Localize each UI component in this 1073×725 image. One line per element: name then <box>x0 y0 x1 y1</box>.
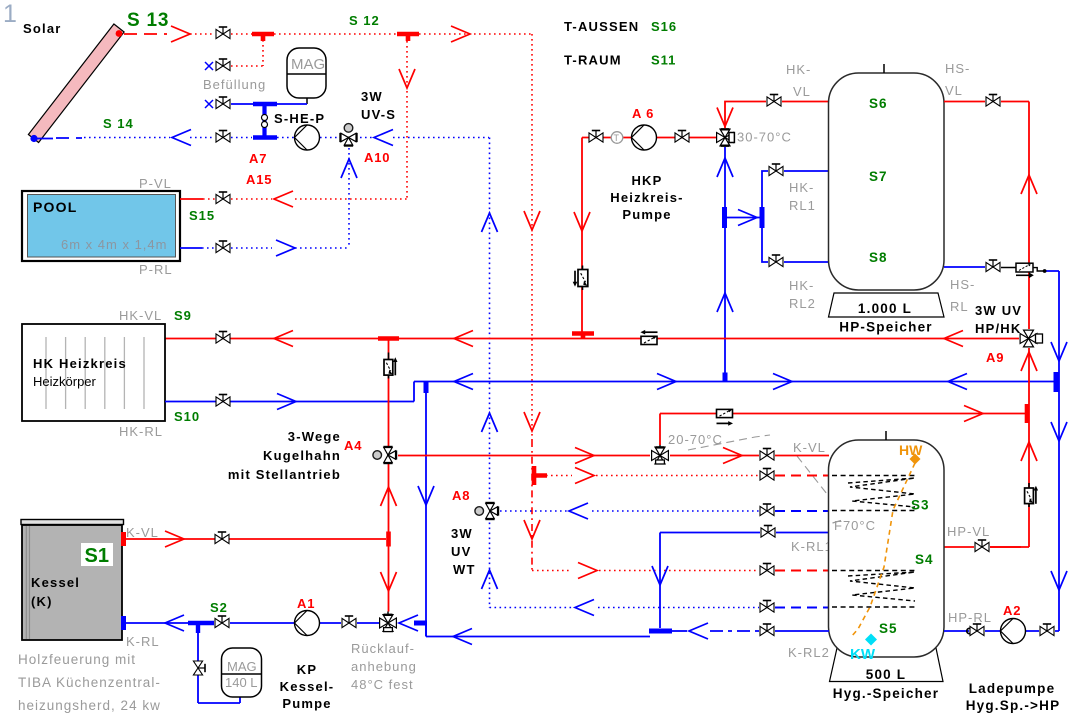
svg-text:A 6: A 6 <box>632 106 654 121</box>
svg-text:A10: A10 <box>364 150 390 165</box>
wire K-RL row (blue) <box>123 622 379 624</box>
arrow up x1029 mid <box>1021 352 1037 371</box>
hygiene tank base <box>830 648 944 682</box>
arrow left pool supply <box>274 191 293 207</box>
svg-text:HP-RL: HP-RL <box>948 610 992 625</box>
wire K-RL2 dash-dot (blue) <box>672 630 687 632</box>
arrow left main red b <box>454 331 473 347</box>
arrow down x660 <box>652 566 668 585</box>
svg-text:P-VL: P-VL <box>139 176 172 191</box>
expansion vessel MAG 140L <box>222 648 262 697</box>
svg-text:Hyg.-Speicher: Hyg.-Speicher <box>833 686 939 701</box>
svg-text:140 L: 140 L <box>225 675 258 690</box>
valve HK return <box>216 395 230 407</box>
arrow left row y513 <box>569 503 588 519</box>
node thick T main blue meets x1059 <box>1054 372 1059 392</box>
svg-text:heizungsherd, 24 kw: heizungsherd, 24 kw <box>18 698 161 713</box>
svg-text:(K): (K) <box>31 594 53 609</box>
arrow down x388 lower <box>381 572 397 591</box>
svg-text:S2: S2 <box>210 600 228 615</box>
solar collector <box>28 24 124 143</box>
3-way mixing valve 30-70C <box>717 129 735 146</box>
svg-text:K-RL1: K-RL1 <box>791 539 833 554</box>
svg-text:MAG: MAG <box>227 659 257 674</box>
wire befuellung (fill line) <box>231 40 263 66</box>
HP buffer tank 1000L <box>829 64 945 290</box>
arrow up x1029 low <box>1021 442 1037 461</box>
svg-text:KW: KW <box>850 646 876 663</box>
arrow up on x349 <box>341 159 357 178</box>
valve HP-RL right <box>1040 624 1054 636</box>
svg-text:A4: A4 <box>344 438 362 453</box>
svg-text:A2: A2 <box>1003 603 1021 618</box>
wire red upper row y413.5 <box>660 413 1026 415</box>
svg-text:RL2: RL2 <box>789 296 816 311</box>
svg-text:mit Stellantrieb: mit Stellantrieb <box>228 467 341 482</box>
svg-text:HW: HW <box>899 442 923 458</box>
svg-text:S4: S4 <box>915 552 934 567</box>
valve HK-RL2 <box>769 255 783 267</box>
wire solar return S14 (blue) <box>37 138 489 139</box>
svg-text:HK-: HK- <box>789 180 814 195</box>
arrow right row y570.5 <box>578 563 597 579</box>
wire HKP pump line (red) <box>582 138 716 334</box>
cap MAG line <box>205 100 213 108</box>
svg-text:3W: 3W <box>361 89 383 104</box>
arrow right on A4 row <box>575 448 594 464</box>
wire A4 to 20-70 mixer (red) <box>398 455 650 457</box>
valve row y513 <box>760 504 774 516</box>
arrow right HK return <box>277 394 296 410</box>
wire HS-RL (blue) <box>944 267 1059 631</box>
svg-text:S 12: S 12 <box>349 13 380 28</box>
valve HP-RL left <box>967 624 984 636</box>
node T junction solar down branch <box>397 32 419 41</box>
arrow right pool return <box>276 240 295 256</box>
wire solar station column <box>262 104 268 138</box>
leader dashed grey b <box>797 456 827 494</box>
wire red dotted vertical x532 (solar to lower zone) <box>531 34 533 440</box>
svg-text:S9: S9 <box>174 308 192 323</box>
svg-text:Heizkörper: Heizkörper <box>33 374 97 389</box>
svg-text:S6: S6 <box>869 96 888 111</box>
wire red vertical x660 <box>659 414 661 446</box>
valve row y570.5 <box>760 564 774 576</box>
valve pool return <box>216 241 230 253</box>
arrow up on x490 c <box>482 570 498 589</box>
svg-text:P-RL: P-RL <box>139 262 173 277</box>
svg-text:3W UV: 3W UV <box>975 303 1022 318</box>
svg-text:anhebung: anhebung <box>351 659 417 674</box>
valve befuellung <box>216 59 230 71</box>
pump S-HE-P <box>295 125 320 150</box>
wire HK-RL1 (blue) <box>762 171 829 218</box>
arrow up x725 b <box>717 293 733 312</box>
wire red dotted vertical x407 to pool supply <box>406 41 408 199</box>
svg-text:S 13: S 13 <box>127 10 169 31</box>
wire pool supply P-VL (red) <box>180 198 407 200</box>
flow meter on x388 <box>384 353 398 379</box>
node thick step x660 <box>649 629 672 634</box>
valve HS-VL <box>986 95 1000 107</box>
wire blue dotted row y513 <box>500 510 759 512</box>
arrow down x1059 c <box>1051 571 1067 590</box>
valve HKP right <box>675 131 689 143</box>
wire MAG connection (blue) <box>231 103 307 105</box>
tank internal dashed level y570.5 <box>832 570 916 572</box>
check valve on main red <box>640 330 657 345</box>
valve right of A1 <box>342 616 356 628</box>
svg-text:Rücklauf-: Rücklauf- <box>351 641 415 656</box>
temperature sensor T <box>611 132 623 144</box>
arrow left main blue d <box>948 374 967 390</box>
cap befuellung <box>205 62 213 70</box>
svg-text:HP-VL: HP-VL <box>947 524 990 539</box>
node thick T x388 top <box>378 336 399 341</box>
wire pool return P-RL (blue) <box>180 247 349 249</box>
svg-text:T-AUSSEN: T-AUSSEN <box>564 19 639 34</box>
node boiler K-VL stub <box>121 532 126 546</box>
svg-text:A15: A15 <box>246 172 272 187</box>
tank internal dashed level y475.5 <box>832 475 916 477</box>
svg-text:A9: A9 <box>986 350 1004 365</box>
arrow right y413.5 <box>964 406 983 422</box>
wire HP-RL row (blue) <box>944 630 1059 632</box>
HP buffer tank base <box>829 293 945 317</box>
HW marker <box>910 454 921 465</box>
arrow left K-RL <box>165 615 184 631</box>
radiator HK Heizkreis box <box>22 324 165 421</box>
node boiler K-RL stub <box>121 616 126 630</box>
svg-text:HK-RL: HK-RL <box>119 424 163 439</box>
svg-text:1.000 L: 1.000 L <box>858 301 912 316</box>
arrow left after UV-S <box>374 130 393 146</box>
svg-text:Kugelhahn: Kugelhahn <box>263 448 341 463</box>
svg-text:RL1: RL1 <box>789 198 816 213</box>
node thick T HK-RL branch <box>725 207 763 228</box>
arrow left row y609.5 <box>575 600 594 616</box>
wire K-RL2 into tank <box>775 630 829 632</box>
svg-text:HP/HK: HP/HK <box>975 321 1021 336</box>
arrow left y636.5 <box>453 629 472 645</box>
svg-text:HP-Speicher: HP-Speicher <box>839 320 932 335</box>
svg-text:48°C fest: 48°C fest <box>351 677 414 692</box>
3-way valve A8 with actuator <box>475 503 498 519</box>
3-way valve A9 <box>1020 330 1042 347</box>
svg-text:VL: VL <box>793 84 811 99</box>
arrow down on x582 <box>574 212 590 231</box>
svg-text:A1: A1 <box>297 596 315 611</box>
svg-text:K-RL2: K-RL2 <box>788 645 830 660</box>
node thick T MAG branch <box>188 623 214 633</box>
svg-text:S5: S5 <box>879 621 898 636</box>
svg-text:Pumpe: Pumpe <box>282 696 331 711</box>
svg-text:500 L: 500 L <box>866 667 907 682</box>
svg-text:1: 1 <box>3 0 17 28</box>
svg-text:VL: VL <box>945 83 963 98</box>
3-way valve UV-S (A10) <box>340 124 356 146</box>
svg-text:Befüllung: Befüllung <box>203 77 266 92</box>
svg-text:30-70°C: 30-70°C <box>737 130 792 145</box>
arrow right main blue c <box>773 374 792 390</box>
wire MAG2 branch (blue) <box>198 631 240 703</box>
arrow left on S14 <box>172 130 191 146</box>
arrow left K-RL2 <box>689 623 708 639</box>
valve K-VL row <box>760 449 774 461</box>
node thick T x426 bottom <box>414 621 427 626</box>
svg-text:WT: WT <box>453 562 476 577</box>
wire red vertical x388 (boiler supply) <box>388 339 390 612</box>
arrow left main red c <box>944 331 963 347</box>
arrow down on x407 <box>399 69 415 88</box>
wire blue below mixer x725 <box>724 147 726 382</box>
svg-text:T-RAUM: T-RAUM <box>564 53 622 68</box>
svg-text:T: T <box>614 133 620 143</box>
svg-text:HK-: HK- <box>789 278 814 293</box>
valve on solar supply <box>216 27 230 39</box>
flow meter on x582 <box>573 266 588 291</box>
valve on main red at HK <box>216 332 230 344</box>
flow meter on x1029 <box>1025 483 1039 507</box>
arrow left into Ruecklauf mixer <box>399 615 418 631</box>
wire blue corner to main return <box>426 623 650 637</box>
svg-text:Ladepumpe: Ladepumpe <box>969 681 1056 696</box>
KW marker <box>865 634 877 646</box>
arrow right on branch <box>738 210 757 226</box>
svg-text:A8: A8 <box>452 488 470 503</box>
svg-text:Holzfeuerung mit: Holzfeuerung mit <box>18 652 136 667</box>
svg-text:Kessel-: Kessel- <box>280 679 335 694</box>
svg-text:RL: RL <box>950 299 969 314</box>
svg-text:KP: KP <box>297 662 317 677</box>
svg-text:S 14: S 14 <box>103 116 134 131</box>
wire red dotted row y475.5 <box>536 475 759 477</box>
node thick T y413.5 end <box>1025 404 1030 423</box>
valve HK-RL1 <box>769 164 783 176</box>
heat exchanger coil upper <box>848 478 915 507</box>
svg-text:Solar: Solar <box>23 21 62 36</box>
valve K-RL1 <box>761 526 775 538</box>
valve K-VL <box>215 532 229 544</box>
arrow left main red a <box>274 331 293 347</box>
wire blue dotted row y609.5 <box>490 607 760 609</box>
wire solar supply S13 (red) <box>124 33 531 35</box>
arrow down on x532 c <box>524 520 540 539</box>
wire red dashed into tank y475.5 <box>775 475 829 477</box>
3-way mixing valve 20-70C <box>652 445 669 465</box>
arrow right K-VL row <box>723 448 742 464</box>
svg-text:HS-: HS- <box>945 61 970 76</box>
svg-text:POOL: POOL <box>33 199 77 215</box>
wire main red supply line y338.5 <box>165 338 1019 340</box>
svg-text:UV-S: UV-S <box>361 107 396 122</box>
svg-text:3-Wege: 3-Wege <box>288 429 341 444</box>
hygiene tank 500L <box>829 431 945 657</box>
arrow right on solar supply 2 <box>451 26 470 42</box>
wire red dotted row y570.5 <box>532 568 759 571</box>
tank internal dashed level y607 <box>832 606 916 608</box>
wire K-VL row to hygiene tank (red) <box>670 455 829 457</box>
svg-text:S16: S16 <box>651 19 677 34</box>
svg-text:MAG: MAG <box>291 56 325 73</box>
wire blue dashed into tank y609.5 <box>775 607 829 609</box>
valve K-RL2 <box>760 624 774 636</box>
wire HS-VL (red) <box>944 102 1029 330</box>
wire HK-RL2 (blue) <box>762 218 829 263</box>
arrow down on x532 a <box>524 211 540 230</box>
arrow up on x490 a <box>482 213 498 232</box>
arrow down x1059 a <box>1051 342 1067 361</box>
arrow down x426 <box>418 486 434 505</box>
svg-text:UV: UV <box>451 544 471 559</box>
arrow right main blue b <box>657 374 676 390</box>
expansion vessel MAG (solar) <box>287 48 326 104</box>
3-way valve A4 with actuator <box>373 447 396 463</box>
wire HP-VL charge line (red) <box>990 546 1021 548</box>
wire blue dotted vertical x490 <box>489 138 491 609</box>
valve MAG2 branch vertical <box>193 661 205 675</box>
wire red x1029 below A9 <box>944 348 1029 547</box>
leader dashed grey a <box>688 435 770 450</box>
boiler lid <box>21 520 124 525</box>
node thick T x426 <box>424 382 429 393</box>
svg-text:S10: S10 <box>174 409 200 424</box>
svg-text:HK Heizkreis: HK Heizkreis <box>33 356 127 371</box>
svg-text:Hyg.Sp.->HP: Hyg.Sp.->HP <box>966 698 1061 713</box>
valve HK-VL <box>767 95 781 107</box>
wire HK-VL to tank (red) <box>725 102 829 129</box>
arrow down x1059 b <box>1051 422 1067 441</box>
arrow left main blue a <box>454 374 473 390</box>
hot water line dashed orange <box>851 463 915 637</box>
wire main blue return line y381.5 <box>414 381 1056 383</box>
valve HS-RL <box>986 260 1000 272</box>
heat exchanger coil lower <box>848 572 915 601</box>
node thick bar MAG line <box>253 102 277 107</box>
arrow down on x532 b <box>524 412 540 431</box>
svg-text:S11: S11 <box>651 53 676 68</box>
valve S2 <box>215 616 229 628</box>
node thick bar x725 at main return <box>723 373 728 382</box>
check valve on y413.5 <box>717 409 734 426</box>
svg-text:Pumpe: Pumpe <box>622 207 671 222</box>
3-way mixing valve Ruecklaufanhebung <box>380 612 397 632</box>
svg-text:HK-: HK- <box>786 62 811 77</box>
arrow down into mixer <box>717 108 733 127</box>
pump A1 Kesselpumpe <box>295 611 320 636</box>
arrow up x1029 top <box>1021 175 1037 194</box>
svg-text:S15: S15 <box>189 208 215 223</box>
wire K-VL (red) <box>123 538 386 540</box>
valve row y475.5 <box>760 469 774 481</box>
valve pool supply <box>216 192 230 204</box>
arrow right K-VL <box>165 531 184 547</box>
svg-text:S7: S7 <box>869 169 888 184</box>
pool box <box>22 191 180 261</box>
svg-text:Kessel: Kessel <box>31 575 80 590</box>
svg-text:HKP: HKP <box>631 173 662 188</box>
boiler Kessel box <box>22 525 122 640</box>
svg-text:Heizkreis-: Heizkreis- <box>610 190 683 205</box>
svg-text:S3: S3 <box>911 498 930 513</box>
svg-text:HS-: HS- <box>950 277 975 292</box>
node thick T at x582 on main red <box>572 334 594 339</box>
valve HP-VL <box>975 540 989 552</box>
check valve symbol HS-RL <box>1001 263 1047 278</box>
wire K-RL1 (blue) <box>660 533 829 629</box>
svg-text:K-VL: K-VL <box>793 440 826 455</box>
svg-text:TIBA Küchenzentral-: TIBA Küchenzentral- <box>18 675 161 690</box>
tank internal dashed level y510.5 <box>832 510 916 512</box>
svg-text:A7: A7 <box>249 151 267 166</box>
svg-text:S1: S1 <box>85 545 109 567</box>
wire pool branch dotted vertical x349 <box>348 148 350 248</box>
arrow up x725 a <box>717 158 733 177</box>
node thick T red dotted branch x532 <box>534 466 547 485</box>
valve on S14 <box>216 131 230 143</box>
svg-text:S8: S8 <box>869 250 888 265</box>
node thick T K-VL joins x388 <box>386 532 391 547</box>
svg-text:S-HE-P: S-HE-P <box>274 111 325 126</box>
wire blue vertical x426 <box>425 382 427 637</box>
wire red dashed into tank y570.5 <box>775 570 829 572</box>
svg-text:K-VL: K-VL <box>126 525 159 540</box>
pump A2 Ladepumpe <box>1001 619 1026 644</box>
arrow up x388 below A4 <box>381 487 397 506</box>
valve MAG line <box>216 97 230 109</box>
wire blue dashed into tank y512.5 <box>775 510 829 512</box>
svg-text:3W: 3W <box>451 526 473 541</box>
svg-text:K-RL: K-RL <box>126 634 160 649</box>
arrow up on x490 b <box>482 413 498 432</box>
arrow right row y475.5 <box>575 468 594 484</box>
sensor label S1 <box>81 543 113 567</box>
svg-text:6m x 4m x 1,4m: 6m x 4m x 1,4m <box>61 237 167 252</box>
arrow right on solar supply <box>171 26 190 42</box>
valve row y609.5 <box>760 601 774 613</box>
node thick bar on S14 line <box>253 135 277 140</box>
node T junction solar/MAG branch <box>252 32 274 41</box>
valve HKP left <box>589 131 603 143</box>
pump A6 HKP <box>632 125 657 150</box>
wire HK return row (blue) <box>165 382 414 402</box>
svg-text:HK-VL: HK-VL <box>119 308 162 323</box>
